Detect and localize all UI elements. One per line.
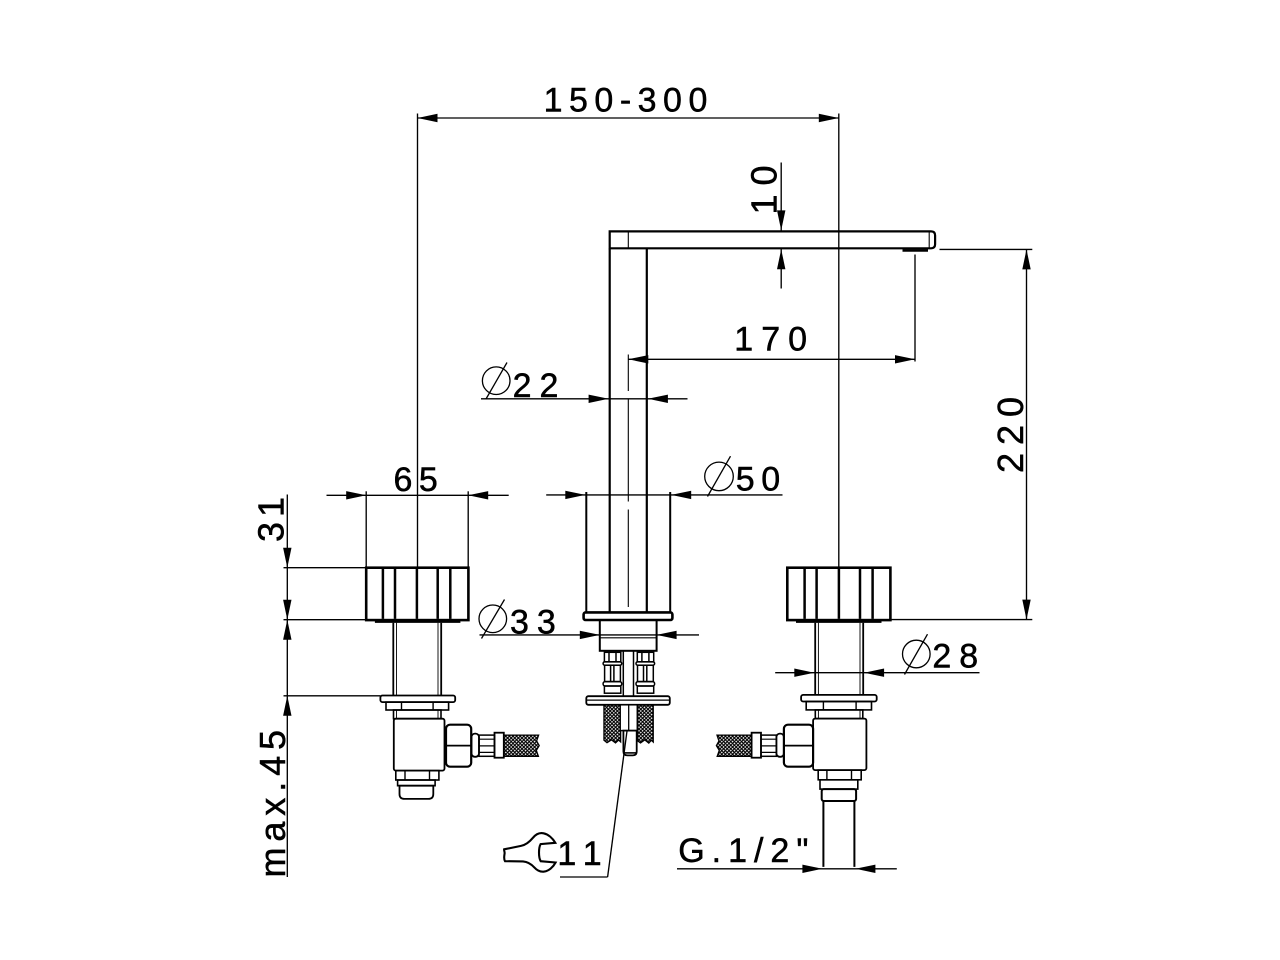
right knob bottom lip — [796, 620, 882, 623]
Ø28 symbol — [903, 640, 931, 668]
riser center line — [627, 355, 629, 608]
Ø33 arrows — [580, 631, 600, 639]
right valve body — [813, 719, 866, 771]
left flange washer — [380, 696, 455, 703]
Ø28 arrows — [794, 669, 814, 677]
svg-text:10: 10 — [743, 156, 784, 214]
spout arm end cap line — [928, 232, 930, 247]
150-300 arrows — [418, 114, 438, 122]
left adapter ribs — [479, 739, 495, 752]
arrowheads — [283, 114, 1031, 873]
tick knob top — [284, 567, 367, 569]
label 11 underline — [560, 876, 608, 878]
spout arm mitre line — [627, 232, 629, 247]
spout riser tube right edge — [646, 249, 648, 613]
left hex coupling — [446, 725, 471, 767]
left knob flutes — [383, 569, 450, 619]
spout outlet aerator — [903, 249, 929, 252]
tick flange top — [284, 695, 381, 697]
right valve neck — [815, 710, 863, 719]
Ø50 symbol — [705, 462, 734, 491]
170 arrows — [628, 355, 648, 363]
right hose ferrule — [752, 733, 761, 758]
65 arrows — [346, 491, 366, 499]
svg-text:65: 65 — [394, 461, 445, 499]
mixer body base plate — [584, 612, 673, 620]
right nut facets — [823, 702, 856, 710]
diameter symbols — [479, 363, 930, 675]
dimension 150-300 left extension — [417, 114, 419, 568]
left shaft inner lines — [397, 623, 439, 696]
dimension Ø50 line — [546, 494, 782, 496]
svg-text:31: 31 — [251, 492, 292, 542]
left knob bottom lip — [375, 620, 461, 623]
right hex coupling facet — [784, 745, 813, 747]
31 arrows — [283, 548, 291, 568]
dimension Ø22 leader — [481, 398, 688, 400]
right handle shaft — [815, 623, 863, 695]
mixer body cylinder left edge — [585, 492, 587, 613]
collar seam line — [600, 637, 657, 639]
svg-text:28: 28 — [932, 638, 986, 676]
right lower ring — [820, 780, 858, 789]
pop-up rod tip — [623, 731, 636, 756]
dimension 170 right extension — [914, 255, 916, 362]
left mounting nut — [386, 702, 449, 710]
svg-text:G.1/2": G.1/2" — [678, 832, 815, 870]
mounting plate — [586, 696, 670, 705]
left nut facets — [402, 702, 434, 710]
Ø33 symbol — [479, 605, 507, 633]
dimension 170 line — [628, 358, 915, 360]
Ø22 arrows — [589, 395, 609, 403]
right crimp ring — [776, 734, 784, 757]
wrench symbol 11 — [504, 833, 556, 872]
right pipe coupling — [822, 789, 856, 801]
dimension 150-300 right extension — [838, 114, 840, 568]
right lower nut — [818, 770, 861, 780]
left valve body — [394, 719, 445, 771]
svg-text:11: 11 — [557, 835, 610, 873]
left hose ferrule — [495, 733, 504, 758]
Ø50 arrows — [565, 491, 585, 499]
body lower collar — [600, 620, 657, 651]
svg-text:220: 220 — [990, 389, 1031, 473]
right hose connector under body — [636, 652, 655, 693]
dimension 10 upper line — [780, 163, 782, 231]
left hex coupling facet — [446, 745, 471, 747]
tick knob bottom — [284, 619, 375, 621]
svg-text:50: 50 — [736, 460, 787, 498]
dimension 220 bottom extension — [891, 619, 1033, 621]
right flexible hose (hatched) — [638, 705, 654, 743]
dimension Ø33 leader — [480, 634, 700, 636]
right hex coupling — [784, 725, 813, 767]
left valve neck — [394, 710, 442, 719]
spout horizontal arm — [610, 231, 935, 248]
left hose adapter — [479, 735, 495, 756]
right knob — [787, 568, 890, 620]
left flexible hose (hatched) — [604, 705, 621, 743]
left hose connector under body — [603, 652, 622, 693]
right inlet pipe — [823, 801, 854, 867]
pop-up rod lower block center line — [628, 705, 630, 731]
right flange washer — [801, 695, 877, 702]
right adapter ribs — [761, 739, 776, 752]
Ø22 symbol — [482, 367, 510, 395]
svg-text:170: 170 — [734, 321, 815, 359]
max.45 arrows — [283, 600, 291, 620]
right knob flutes — [805, 569, 873, 619]
left braided hose — [504, 735, 539, 756]
pop-up rod tip seam — [623, 752, 636, 754]
right lower nut facets — [827, 770, 852, 780]
right hose adapter — [761, 735, 776, 756]
svg-text:33: 33 — [510, 604, 564, 642]
svg-text:150-300: 150-300 — [544, 81, 714, 119]
left lower ring — [398, 780, 436, 786]
dimension 150-300 line — [418, 117, 839, 119]
mixer body cylinder right edge — [669, 492, 671, 613]
G.1/2 arrows — [802, 865, 822, 873]
svg-text:22: 22 — [513, 367, 567, 405]
dimension 10 lower line — [780, 249, 782, 289]
dimension 65 line — [327, 494, 509, 496]
left lower nut facets — [405, 771, 430, 780]
right mounting nut — [806, 702, 871, 710]
dimension G.1/2 line — [677, 868, 897, 870]
label 11 leader — [608, 731, 627, 877]
dimension 65 left extension — [365, 491, 367, 567]
dimension Ø28 line — [775, 672, 979, 674]
pop-up rod lower block — [620, 705, 637, 731]
10 arrows — [777, 210, 785, 230]
left bottom cap — [400, 786, 434, 799]
mounting plate seam — [586, 699, 670, 701]
left crimp ring — [472, 734, 480, 757]
dimension 220 line — [1026, 249, 1028, 619]
left handle shaft — [393, 623, 441, 696]
220 arrows — [1022, 249, 1030, 269]
right braided hose — [716, 735, 751, 756]
dimension 31 / max.45 vertical line — [286, 495, 288, 878]
dimension 220 top extension — [940, 248, 1033, 250]
left knob — [366, 568, 468, 620]
spout riser tube left edge — [609, 249, 611, 613]
right shaft inner lines — [818, 623, 860, 695]
pop-up rod upper section — [623, 651, 633, 696]
dimension 65 right extension — [467, 491, 469, 567]
left lower nut — [396, 771, 439, 780]
svg-text:max.45: max.45 — [252, 724, 293, 877]
